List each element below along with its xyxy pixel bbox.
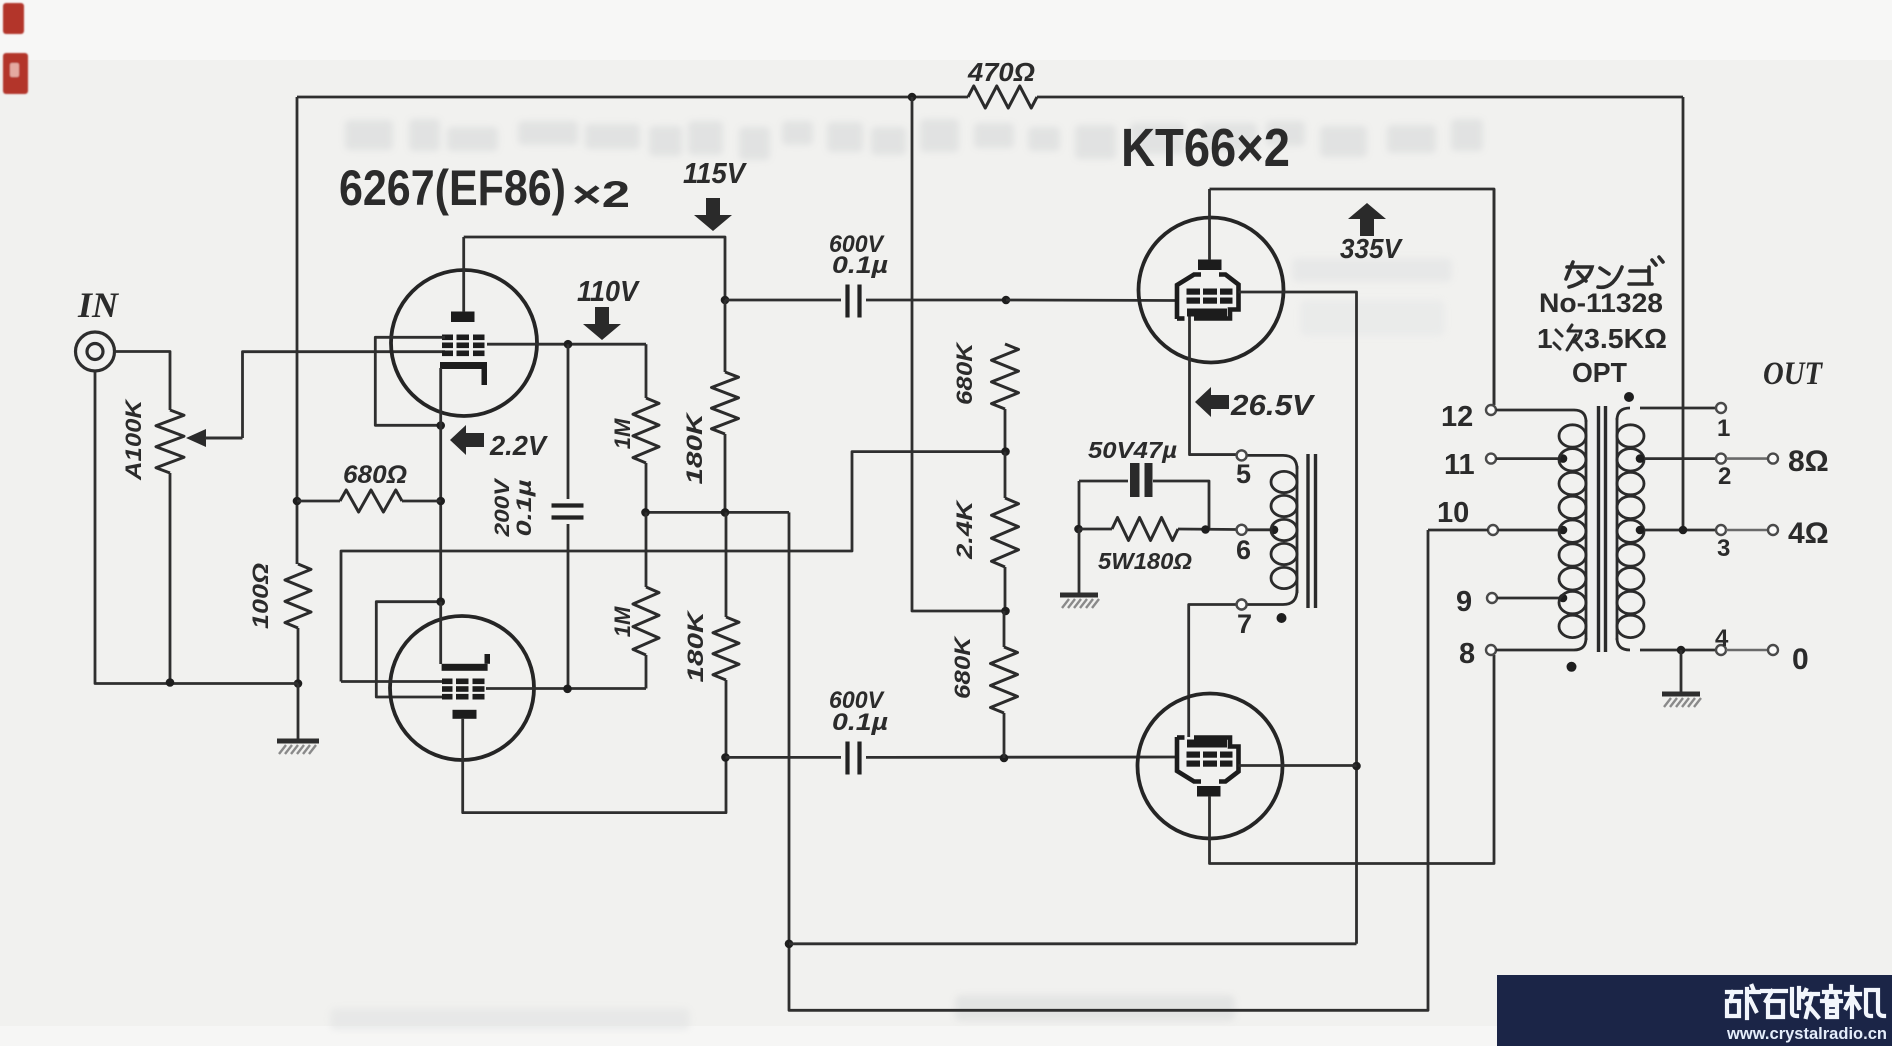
wire pin5 link bbox=[1190, 453, 1237, 456]
wire wiper up-right bbox=[243, 352, 446, 438]
wire sec gnd stub bbox=[1680, 650, 1683, 692]
pin 9 circle bbox=[1487, 593, 1497, 603]
svg-text:6: 6 bbox=[1236, 535, 1251, 565]
pin 2 circle bbox=[1716, 454, 1726, 464]
pot wiper arrow bbox=[186, 429, 206, 447]
wire bias top corner bbox=[1078, 481, 1081, 529]
svg-text:5: 5 bbox=[1236, 459, 1251, 489]
tube V1 plate bbox=[451, 312, 475, 323]
wire V2 grid out bbox=[486, 687, 646, 690]
pin 12 circle bbox=[1486, 405, 1496, 415]
wire pin12 vertical bbox=[1493, 189, 1496, 405]
wire V1 grid box bbox=[375, 337, 445, 425]
tube V2 cathode bbox=[453, 710, 477, 719]
wire 680ohm right lead bbox=[402, 500, 441, 503]
wire lower coupling left bbox=[726, 756, 842, 759]
wire pin8 to winding bbox=[1496, 649, 1574, 652]
resistor R-470ohm bbox=[968, 86, 1037, 108]
svg-text:680Ω: 680Ω bbox=[343, 461, 407, 489]
choke core bbox=[1306, 454, 1309, 608]
choke polarity dot bbox=[1277, 613, 1287, 623]
wire V1 grid right bbox=[487, 343, 646, 346]
wire bias top bbox=[1079, 480, 1128, 483]
wire V1 cathode down bbox=[439, 368, 442, 602]
pin 10 circle bbox=[1488, 525, 1498, 535]
wire pin10 down-left bbox=[1428, 529, 1488, 532]
ground G2 bias bbox=[1060, 593, 1098, 598]
svg-text:2.4K: 2.4K bbox=[952, 498, 977, 560]
svg-text:4: 4 bbox=[1715, 625, 1729, 652]
wire jack to pot top bbox=[115, 352, 171, 411]
svg-text:IN: IN bbox=[77, 285, 120, 325]
pin 4 circle bbox=[1716, 645, 1726, 655]
svg-text:26.5V: 26.5V bbox=[1230, 390, 1316, 422]
wire to KT66 g1 bbox=[1006, 299, 1178, 302]
node 180K2-bottom junction bbox=[721, 753, 730, 762]
svg-text:A100K: A100K bbox=[121, 398, 146, 482]
wire 4ohm stub bbox=[1726, 529, 1768, 532]
wire left vertical x297 bbox=[296, 97, 299, 564]
svg-text:180K: 180K bbox=[682, 411, 707, 485]
svg-text:680K: 680K bbox=[950, 635, 975, 699]
resistor R-1M-2 bbox=[633, 512, 659, 688]
resistor R-2.4K bbox=[992, 452, 1019, 611]
OPT secondary winding bbox=[1617, 408, 1630, 420]
node sec gnd tap bbox=[1677, 646, 1686, 655]
svg-text:3: 3 bbox=[1717, 535, 1730, 562]
svg-text:7: 7 bbox=[1237, 609, 1252, 639]
svg-text:5W180Ω: 5W180Ω bbox=[1098, 548, 1192, 574]
wire top rail right bbox=[1037, 96, 1683, 99]
OPT polarity dot top bbox=[1624, 392, 1634, 402]
tube V4 beam cup bbox=[1177, 737, 1201, 782]
node divider-mid junction bbox=[1001, 447, 1010, 456]
wire V2 plate lead bbox=[439, 602, 442, 664]
resistor R-680ohm bbox=[340, 490, 402, 512]
wire 680ohm left lead bbox=[297, 500, 340, 503]
wire V2 grid upper-left bbox=[341, 680, 445, 683]
wire V3 plate lead bbox=[1208, 189, 1211, 260]
OPT primary winding bbox=[1574, 410, 1586, 422]
node bias-right junction bbox=[1201, 525, 1210, 534]
wire jack ground leg bbox=[95, 371, 298, 684]
node V2 grid-cap junction bbox=[563, 685, 572, 694]
node bias-left junction bbox=[1074, 525, 1083, 534]
resistor R-680K-1 bbox=[992, 344, 1019, 452]
svg-text:9: 9 bbox=[1456, 586, 1472, 618]
node choke tap junction bbox=[1270, 526, 1279, 535]
wire sec 8ohm tap bbox=[1641, 457, 1716, 460]
resistor R-680K-2 bbox=[991, 611, 1018, 758]
node 180K bus junction bbox=[721, 508, 730, 517]
arrow 335V bbox=[1360, 218, 1374, 236]
capacitor C-200V-0.1u bbox=[552, 503, 584, 507]
ground G1 under 100ohm bbox=[277, 739, 319, 744]
tube V1 cathode bbox=[440, 362, 487, 369]
wire pin10 to winding bbox=[1498, 529, 1565, 532]
svg-text:335V: 335V bbox=[1340, 233, 1403, 264]
OPT core bbox=[1597, 406, 1600, 652]
terminal 4ohm bbox=[1768, 525, 1778, 535]
bleed-through smudges bbox=[330, 119, 1483, 1030]
arrow 110V bbox=[595, 307, 609, 325]
svg-text:2: 2 bbox=[1718, 463, 1731, 490]
tube V2 6267 envelope bbox=[390, 616, 534, 760]
svg-text:8Ω: 8Ω bbox=[1788, 445, 1829, 478]
wire pin11 to winding bbox=[1496, 457, 1565, 460]
label tango bbox=[1566, 257, 1663, 287]
svg-text:1: 1 bbox=[1537, 323, 1553, 354]
svg-text:110V: 110V bbox=[577, 276, 640, 308]
node sec tap 4ohm bbox=[1636, 526, 1645, 535]
capacitor C-600V-0.1u upper bbox=[845, 285, 849, 318]
wire pin12 to winding bbox=[1496, 409, 1574, 412]
wire V2 cathode return bbox=[463, 719, 726, 813]
capacitor C-50V-47u bbox=[1130, 463, 1140, 497]
svg-text:50V47µ: 50V47µ bbox=[1088, 437, 1177, 463]
wire sec top to pin1 bbox=[1640, 407, 1716, 410]
svg-text:180K: 180K bbox=[683, 609, 708, 683]
pin 8 circle bbox=[1486, 645, 1496, 655]
svg-text:0.1µ: 0.1µ bbox=[832, 709, 888, 736]
node top-rail junction bbox=[908, 93, 917, 102]
svg-text:No-11328: No-11328 bbox=[1539, 288, 1663, 318]
resistor R-180K-2 bbox=[713, 512, 739, 757]
svg-text:1: 1 bbox=[1717, 415, 1730, 442]
pin 11 circle bbox=[1486, 454, 1496, 464]
pin 1 circle bbox=[1716, 403, 1726, 413]
wire 8ohm stub bbox=[1726, 457, 1768, 460]
terminal 8ohm bbox=[1768, 454, 1778, 464]
tube V3 beam cup bbox=[1177, 275, 1201, 320]
pin 6 circle bbox=[1237, 525, 1247, 535]
wire feedback right vertical bbox=[1682, 97, 1685, 530]
wire bus y944 bbox=[789, 512, 1428, 1010]
OPT polarity dot bottom bbox=[1567, 662, 1577, 672]
wire 100ohm to rail bbox=[297, 628, 300, 684]
node pot-bottom junction bbox=[166, 678, 175, 687]
svg-text:115V: 115V bbox=[683, 158, 748, 190]
arrow 2.2V bbox=[466, 433, 484, 447]
wire bias right lead bbox=[1178, 528, 1237, 531]
tube V2 grids bbox=[442, 679, 453, 685]
node V2 plate-link junction bbox=[436, 597, 445, 606]
svg-text:KT66×2: KT66×2 bbox=[1121, 118, 1290, 178]
wire pot bottom bbox=[169, 473, 172, 684]
svg-text:OUT: OUT bbox=[1763, 356, 1824, 392]
wire V2 grid feed bbox=[341, 452, 1006, 682]
node sec tap 8ohm bbox=[1636, 454, 1645, 463]
watermark crystalradio bbox=[1497, 975, 1892, 1046]
wire V1 plate lead bbox=[462, 237, 465, 312]
choke T1 winding bbox=[1247, 455, 1297, 469]
wire bias left lead bbox=[1079, 528, 1113, 531]
svg-text:11: 11 bbox=[1444, 449, 1475, 481]
tube V4 KT66 envelope bbox=[1138, 694, 1283, 839]
node feedback tap bbox=[1679, 526, 1688, 535]
wire V4 plate lead bbox=[1210, 655, 1495, 864]
wire bias gnd stub bbox=[1078, 529, 1081, 593]
pin circles overlay bbox=[1237, 450, 1247, 460]
node opt tap9 bbox=[1559, 594, 1568, 603]
wire V1 plate rail bbox=[464, 237, 725, 300]
potentiometer R-A100K bbox=[156, 410, 184, 473]
resistor R-1M-1 bbox=[633, 344, 659, 512]
node bus junction bbox=[785, 940, 794, 949]
svg-text:0: 0 bbox=[1792, 643, 1809, 676]
tube V4 grids bbox=[1187, 752, 1201, 758]
svg-text:100Ω: 100Ω bbox=[248, 563, 273, 629]
ground G3 OPT bbox=[1662, 692, 1700, 697]
wire lower coupling right bbox=[866, 756, 1178, 759]
wire C200 bottom lead bbox=[567, 524, 570, 689]
svg-text:OPT: OPT bbox=[1572, 357, 1627, 388]
tube V3 cathode bbox=[1187, 309, 1227, 317]
svg-text:4Ω: 4Ω bbox=[1788, 517, 1829, 550]
wire screen-feed vertical x912 bbox=[912, 97, 1006, 611]
svg-text:200V: 200V bbox=[491, 477, 514, 537]
svg-text:8: 8 bbox=[1459, 638, 1475, 670]
node plate-node junction bbox=[721, 296, 730, 305]
svg-text:1M: 1M bbox=[610, 418, 635, 449]
svg-text:×2: ×2 bbox=[572, 174, 630, 215]
scan artifact red marks bbox=[3, 3, 28, 94]
jack IN outer bbox=[76, 332, 115, 371]
tube V3 plate bbox=[1198, 260, 1222, 271]
node V1 cathode-g3 junction bbox=[436, 421, 445, 430]
wire V3 cathode lead bbox=[1190, 317, 1237, 455]
node screen junction bbox=[1352, 762, 1361, 771]
tube V2 plate bbox=[442, 664, 488, 671]
wire V4 screen bbox=[1239, 764, 1357, 767]
tube V4 plate bbox=[1197, 786, 1221, 797]
resistor R-180K-1 bbox=[712, 300, 739, 512]
arrow 115V bbox=[706, 198, 720, 216]
wire sec bottom bbox=[1640, 649, 1716, 652]
wire bus y944 horizontal bbox=[789, 942, 1357, 945]
svg-text:www.crystalradio.cn: www.crystalradio.cn bbox=[1726, 1025, 1887, 1043]
wire pin9 to winding bbox=[1497, 597, 1565, 600]
svg-text:1M: 1M bbox=[610, 606, 635, 637]
svg-text:0.1µ: 0.1µ bbox=[513, 480, 536, 537]
terminal 0 bbox=[1768, 645, 1778, 655]
wire 1M-180K bus bbox=[646, 511, 790, 514]
wire pin6 into winding bbox=[1247, 528, 1272, 531]
svg-text:6267(EF86): 6267(EF86) bbox=[339, 160, 566, 216]
svg-text:680K: 680K bbox=[952, 341, 977, 405]
svg-text:3.5KΩ: 3.5KΩ bbox=[1584, 323, 1667, 354]
wire top rail left bbox=[297, 96, 968, 99]
wire plate node to cap bbox=[725, 299, 841, 302]
node divider-low junction bbox=[1001, 607, 1010, 616]
node 680K2-bottom junction bbox=[1000, 754, 1009, 763]
node 1M bus junction bbox=[641, 508, 650, 517]
node grid-1M junction bbox=[564, 340, 573, 349]
node bottom-left junction bbox=[294, 679, 303, 688]
wire C200 top lead bbox=[567, 344, 570, 499]
node opt tap10 bbox=[1559, 526, 1568, 535]
svg-text:2.2V: 2.2V bbox=[489, 430, 548, 461]
svg-text:10: 10 bbox=[1437, 497, 1469, 529]
arrow 26.5V bbox=[1211, 395, 1229, 409]
capacitor C-600V-0.1u lower bbox=[845, 742, 849, 775]
wire 100ohm ground stub bbox=[297, 684, 300, 741]
node 680K-top junction bbox=[1002, 296, 1011, 305]
wire V3 screen bbox=[1239, 292, 1357, 944]
tube V3 KT66 envelope bbox=[1139, 218, 1284, 363]
svg-text:12: 12 bbox=[1441, 401, 1473, 433]
jack IN inner bbox=[87, 344, 103, 360]
svg-text:0.1µ: 0.1µ bbox=[832, 252, 888, 279]
tube V3 grids bbox=[1187, 289, 1201, 295]
pin 7 circle bbox=[1237, 600, 1247, 610]
node 680ohm-left junction bbox=[293, 497, 302, 506]
wire cap to KT66 grid bbox=[866, 299, 1006, 302]
svg-text:470Ω: 470Ω bbox=[967, 57, 1035, 87]
resistor R-100ohm bbox=[285, 564, 311, 628]
wire bias cap right bbox=[1153, 481, 1209, 529]
pin 5 circle bbox=[1237, 450, 1247, 460]
wire pin7 to V4 cathode bbox=[1189, 605, 1237, 738]
node opt tap11 bbox=[1559, 454, 1568, 463]
pin 3 circle bbox=[1716, 525, 1726, 535]
wire sec 4ohm tap bbox=[1641, 529, 1716, 532]
tube V4 cathode bbox=[1187, 740, 1227, 748]
wire V2 g3 link bbox=[376, 602, 445, 697]
wire V3 plate top rail bbox=[1210, 189, 1495, 405]
wire 0 stub bbox=[1726, 649, 1768, 652]
node V1 cathode-680 junction bbox=[436, 497, 445, 506]
resistor R-5W180 bbox=[1112, 518, 1178, 541]
tube V1 grids bbox=[442, 335, 453, 341]
tube V1 6267 envelope bbox=[391, 270, 537, 416]
